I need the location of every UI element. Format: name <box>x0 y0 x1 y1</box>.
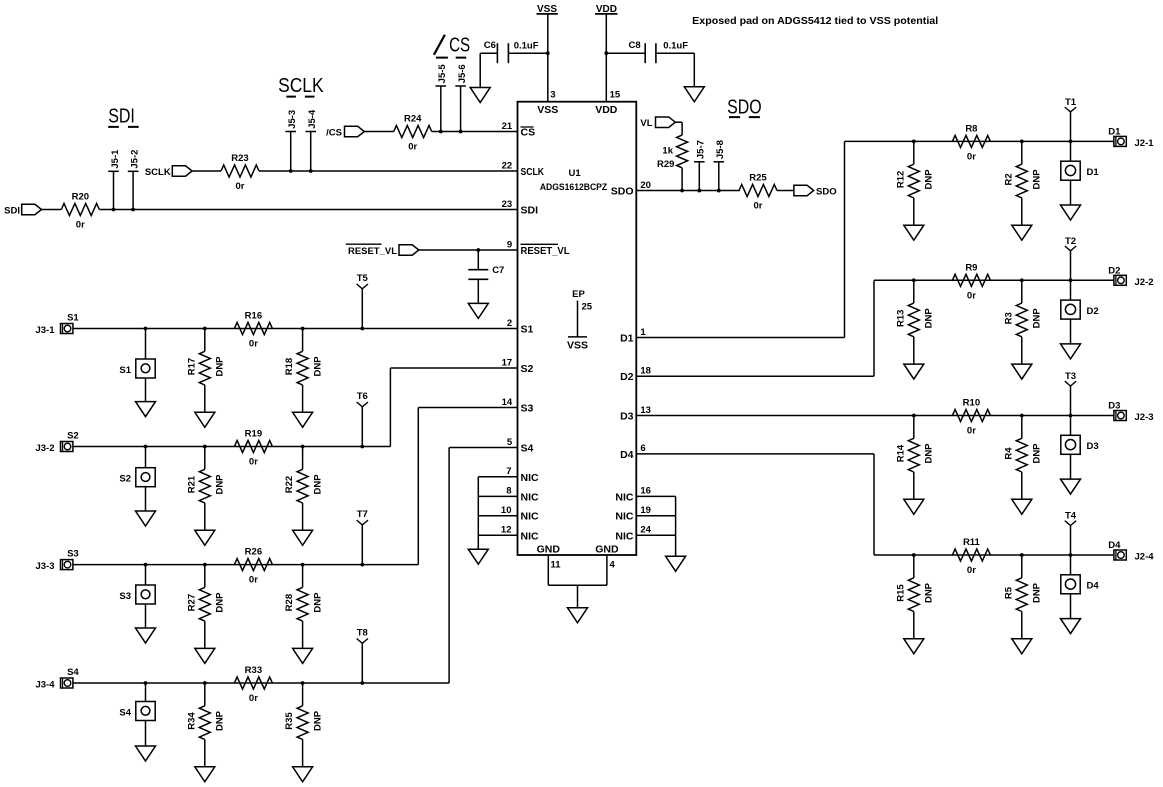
wire jack D4 to ground <box>1070 594 1072 619</box>
resistor R12 DNP <box>895 141 934 240</box>
svg-text:6: 6 <box>640 443 645 454</box>
resistor R15 DNP <box>895 555 934 654</box>
svg-text:1: 1 <box>640 327 646 338</box>
svg-text:SCLK: SCLK <box>145 167 171 178</box>
resistor R9 0r <box>952 262 990 301</box>
resistor R8 0r <box>952 123 990 162</box>
net label SDI (header) <box>108 106 139 128</box>
svg-text:DNP: DNP <box>1032 443 1043 464</box>
svg-text:NIC: NIC <box>615 511 634 523</box>
svg-text:VDD: VDD <box>595 104 618 116</box>
svg-text:0r: 0r <box>408 142 417 153</box>
resistor R34 DNP <box>186 683 225 782</box>
svg-text:S4: S4 <box>119 707 131 718</box>
svg-text:D4: D4 <box>1108 540 1121 551</box>
pin 1 (D1) of U1 <box>620 327 646 345</box>
svg-text:R19: R19 <box>245 429 262 440</box>
svg-text:D2: D2 <box>1087 306 1099 317</box>
pin 22 (SCLK) of U1 <box>502 160 545 178</box>
test point T1 <box>1065 97 1077 161</box>
test point T4 <box>1065 511 1077 575</box>
wire to jack S2 <box>145 447 147 468</box>
pin 23 (SDI) of U1 <box>502 199 538 217</box>
svg-text:D1: D1 <box>620 333 634 345</box>
svg-text:0r: 0r <box>967 565 976 576</box>
svg-text:J2-4: J2-4 <box>1135 552 1155 563</box>
svg-text:R34: R34 <box>186 712 197 730</box>
svg-text:9: 9 <box>507 239 512 250</box>
svg-text:R23: R23 <box>231 153 248 164</box>
svg-text:J3-2: J3-2 <box>35 443 54 454</box>
svg-text:J2-3: J2-3 <box>1135 412 1154 423</box>
svg-text:10: 10 <box>501 505 512 516</box>
svg-text:SDO: SDO <box>816 186 837 197</box>
resistor R35 DNP <box>284 683 323 782</box>
pin 14 (S3) of U1 <box>502 397 534 415</box>
svg-text:NIC: NIC <box>521 491 540 503</box>
wire R25 to SDO flag <box>777 190 794 192</box>
resistor R19 0r <box>234 429 272 468</box>
pin 15 (VDD) of U1 <box>595 90 621 116</box>
svg-text:SDI: SDI <box>108 106 135 128</box>
svg-text:12: 12 <box>501 525 512 536</box>
svg-text:0r: 0r <box>967 426 976 437</box>
pin 3 (VSS) of U1 <box>537 90 558 116</box>
svg-text:GND: GND <box>595 543 619 555</box>
svg-text:S4: S4 <box>67 667 79 678</box>
jumper J5-5 <box>436 64 449 134</box>
pin 18 (D2) of U1 <box>620 366 651 384</box>
ground below jack D1 <box>1061 205 1081 220</box>
svg-text:SDI: SDI <box>521 205 539 217</box>
svg-text:SCLK: SCLK <box>521 166 545 178</box>
svg-text:R17: R17 <box>186 358 197 375</box>
jack D1 <box>1061 161 1100 180</box>
svg-text:DNP: DNP <box>313 474 324 495</box>
svg-text:D3: D3 <box>1087 441 1099 452</box>
svg-text:R27: R27 <box>186 594 197 611</box>
resistor R27 DNP <box>186 565 225 664</box>
resistor R16 0r <box>234 311 272 350</box>
wire U1 pin to D4 riser <box>636 454 874 555</box>
svg-text:J5-7: J5-7 <box>696 140 707 159</box>
svg-text:SCLK: SCLK <box>278 75 324 97</box>
jack D2 <box>1061 300 1099 319</box>
svg-text:19: 19 <box>640 505 651 516</box>
jumper J5-8 <box>714 140 727 192</box>
svg-text:T7: T7 <box>357 509 368 520</box>
svg-text:R24: R24 <box>404 114 422 125</box>
svg-text:DNP: DNP <box>215 592 226 613</box>
svg-text:7: 7 <box>506 466 511 477</box>
wire U1 pin to D1 riser <box>636 141 844 337</box>
svg-text:DNP: DNP <box>215 356 226 377</box>
pin 12 (NIC) of U1 <box>501 525 539 543</box>
pin 5 (S4) of U1 <box>507 437 534 455</box>
ground below jack D2 <box>1061 344 1081 359</box>
svg-text:ADGS1612BCPZ: ADGS1612BCPZ <box>540 182 607 193</box>
svg-text:0r: 0r <box>249 575 258 586</box>
net label S1 <box>67 313 79 324</box>
wire net S4 <box>73 681 449 685</box>
wire jack D2 to ground <box>1070 319 1072 344</box>
svg-text:24: 24 <box>640 525 651 536</box>
svg-text:S2: S2 <box>119 474 131 485</box>
svg-text:S1: S1 <box>67 313 79 324</box>
net label /CS (header) <box>434 34 470 57</box>
connector J2-3 <box>1108 401 1153 424</box>
test point T6 <box>357 391 368 447</box>
wire GND pins 11 and 4 <box>548 555 607 608</box>
svg-text:R33: R33 <box>245 665 262 676</box>
svg-text:R21: R21 <box>186 475 197 493</box>
svg-text:SDO: SDO <box>727 97 762 119</box>
svg-text:R18: R18 <box>284 358 295 375</box>
pin 20 (SDO) of U1 <box>611 180 651 198</box>
resistor R11 0r <box>952 537 990 576</box>
svg-text:R10: R10 <box>963 398 980 409</box>
wire net D1 <box>845 140 1115 144</box>
capacitor C6 0.1uF <box>484 40 539 63</box>
jack S4 <box>119 702 155 721</box>
svg-text:R5: R5 <box>1003 586 1014 599</box>
wire C6 to ground <box>479 53 481 87</box>
net label S3 <box>67 549 79 560</box>
svg-text:J2-1: J2-1 <box>1135 138 1155 149</box>
svg-text:R2: R2 <box>1003 173 1014 185</box>
pin 4 (GND) of U1 <box>595 543 619 570</box>
svg-text:CS: CS <box>449 34 470 56</box>
note text <box>692 15 938 27</box>
jumper J5-2 <box>128 150 141 212</box>
svg-text:0r: 0r <box>76 220 85 231</box>
svg-text:/CS: /CS <box>326 127 342 138</box>
resistor R22 DNP <box>284 447 323 546</box>
resistor R13 DNP <box>895 280 934 379</box>
svg-text:DNP: DNP <box>313 356 324 377</box>
port flag SDO <box>794 185 837 197</box>
svg-text:EP: EP <box>572 289 585 300</box>
wire S3 riser to U1 <box>418 408 517 565</box>
jack S3 <box>119 585 155 604</box>
svg-text:T4: T4 <box>1065 511 1077 522</box>
jumper J5-6 <box>455 64 468 133</box>
svg-text:J5-5: J5-5 <box>437 64 448 84</box>
svg-text:R14: R14 <box>895 444 906 462</box>
svg-text:23: 23 <box>502 199 513 210</box>
resistor R28 DNP <box>284 565 323 664</box>
svg-text:NIC: NIC <box>521 530 540 542</box>
ground below jack S4 <box>136 746 156 761</box>
svg-text:D2: D2 <box>1108 265 1120 276</box>
svg-text:20: 20 <box>640 180 651 191</box>
jack S1 <box>119 359 155 378</box>
svg-text:R15: R15 <box>895 584 906 602</box>
svg-text:NIC: NIC <box>615 491 634 503</box>
svg-text:DNP: DNP <box>1032 169 1043 190</box>
resistor R20 0r <box>61 192 99 231</box>
svg-text:D1: D1 <box>1087 167 1100 178</box>
port flag SDI <box>4 204 41 216</box>
svg-text:5: 5 <box>507 437 513 448</box>
svg-text:11: 11 <box>551 560 562 571</box>
svg-text:8: 8 <box>506 486 511 497</box>
svg-text:R20: R20 <box>72 192 89 203</box>
svg-text:0r: 0r <box>249 693 258 704</box>
svg-text:T6: T6 <box>357 391 368 402</box>
svg-text:DNP: DNP <box>924 443 935 464</box>
wire net D4 <box>874 553 1114 557</box>
wire C6 to VSS rail <box>480 51 549 55</box>
pin 2 (S1) of U1 <box>507 318 534 336</box>
pin 7 (NIC) of U1 <box>506 466 539 484</box>
svg-text:0r: 0r <box>249 339 258 350</box>
resistor R17 DNP <box>186 329 225 428</box>
pin 16 (NIC) of U1 <box>615 486 651 504</box>
svg-text:J5-3: J5-3 <box>287 110 298 129</box>
connector J3-1 <box>35 324 72 337</box>
jack D3 <box>1061 435 1099 454</box>
svg-text:0r: 0r <box>967 290 976 301</box>
svg-text:4: 4 <box>610 560 616 571</box>
ground below jack S2 <box>136 511 156 526</box>
wire /CS flag to R24 <box>364 131 393 133</box>
pin 17 (S2) of U1 <box>502 357 534 375</box>
resistor R24 0r <box>394 114 432 153</box>
svg-text:C7: C7 <box>492 265 504 276</box>
svg-text:0r: 0r <box>249 457 258 468</box>
svg-text:S3: S3 <box>521 403 534 415</box>
svg-text:16: 16 <box>640 486 651 497</box>
pin 8 (NIC) of U1 <box>506 486 539 504</box>
svg-text:NIC: NIC <box>521 511 540 523</box>
svg-text:25: 25 <box>582 302 593 313</box>
svg-text:C6: C6 <box>484 40 496 51</box>
resistor R29 1k <box>657 135 688 190</box>
ground below C6 <box>470 88 490 103</box>
power flag VSS <box>537 4 558 15</box>
net label S4 <box>67 667 79 678</box>
port flag /CS <box>326 126 364 138</box>
svg-text:3: 3 <box>550 90 555 101</box>
svg-text:DNP: DNP <box>215 474 226 495</box>
svg-text:T3: T3 <box>1065 371 1076 382</box>
svg-text:J5-4: J5-4 <box>307 109 318 129</box>
wire jack D3 to ground <box>1070 454 1072 479</box>
test point T5 <box>357 273 369 329</box>
port flag SCLK <box>145 166 192 178</box>
resistor R33 0r <box>234 665 272 704</box>
wire to jack S3 <box>145 565 147 585</box>
wire net S2 <box>73 445 390 449</box>
svg-text:DNP: DNP <box>215 710 226 731</box>
svg-text:R4: R4 <box>1003 447 1014 460</box>
svg-text:17: 17 <box>502 357 513 368</box>
pin 19 (NIC) of U1 <box>615 505 651 523</box>
svg-text:R3: R3 <box>1003 312 1014 324</box>
svg-text:T5: T5 <box>357 273 369 284</box>
svg-text:0r: 0r <box>754 201 763 212</box>
jack S2 <box>119 468 155 487</box>
ground below jack D3 <box>1061 479 1081 494</box>
wire jack S4 to ground <box>145 721 147 747</box>
svg-text:J5-2: J5-2 <box>130 150 141 169</box>
capacitor C7 <box>468 265 504 279</box>
svg-text:R12: R12 <box>895 171 906 188</box>
net label SDO (header) <box>727 97 762 119</box>
pin 25 (EP) of U1 <box>567 289 593 352</box>
svg-text:GND: GND <box>537 543 561 555</box>
wire SDI flag to R20 <box>42 209 62 211</box>
resistor R3 DNP <box>1003 280 1042 379</box>
wire jack S2 to ground <box>145 487 147 511</box>
svg-text:14: 14 <box>502 397 513 408</box>
svg-text:0.1uF: 0.1uF <box>663 40 688 51</box>
svg-text:1k: 1k <box>662 146 673 157</box>
ground below jack D4 <box>1061 619 1081 634</box>
IC U1 ADGS1612BCPZ body <box>518 102 637 555</box>
svg-text:DNP: DNP <box>924 308 935 329</box>
connector J3-2 <box>35 442 72 455</box>
wire VDD rail to pin 15 <box>605 14 607 102</box>
ground below C7 <box>468 303 488 318</box>
wire jack S3 to ground <box>145 604 147 628</box>
svg-text:S3: S3 <box>67 549 79 560</box>
svg-text:VSS: VSS <box>567 340 588 352</box>
svg-text:D4: D4 <box>620 449 634 461</box>
jumper J5-7 <box>694 140 707 192</box>
test point T2 <box>1065 236 1076 300</box>
svg-text:RESET_VL: RESET_VL <box>348 246 397 257</box>
svg-text:S1: S1 <box>521 324 534 336</box>
svg-text:J5-6: J5-6 <box>457 64 468 83</box>
ground NIC right <box>666 556 686 571</box>
svg-text:21: 21 <box>502 121 513 132</box>
wire NIC pins left <box>478 477 517 549</box>
wire net S1 <box>73 327 518 331</box>
resistor R25 0r <box>739 173 777 212</box>
wire jack S1 to ground <box>145 378 147 402</box>
test point T3 <box>1065 371 1076 435</box>
pin 21 (CS) of U1 <box>502 121 535 139</box>
wire VSS rail to pin 3 <box>547 14 549 102</box>
wire jack D1 to ground <box>1070 180 1072 205</box>
wire SDI net to pin 23 <box>99 209 517 211</box>
svg-text:13: 13 <box>640 405 651 416</box>
pin 24 (NIC) of U1 <box>615 525 651 543</box>
svg-text:D4: D4 <box>1087 581 1100 592</box>
svg-text:0r: 0r <box>236 181 245 192</box>
ground below jack S3 <box>136 628 156 643</box>
ground below U1 <box>568 608 588 623</box>
resistor R4 DNP <box>1003 416 1042 515</box>
pin 13 (D3) of U1 <box>620 405 651 423</box>
net label S2 <box>67 431 79 442</box>
svg-text:T2: T2 <box>1065 236 1076 247</box>
resistor R2 DNP <box>1003 141 1042 240</box>
jumper J5-4 <box>305 109 318 173</box>
wire U1 pin to D2 riser <box>636 280 874 376</box>
svg-text:D3: D3 <box>1108 401 1120 412</box>
resistor R14 DNP <box>895 416 934 515</box>
wire S4 riser to U1 <box>449 448 517 684</box>
svg-text:RESET_VL: RESET_VL <box>521 245 571 257</box>
wire S2 riser to U1 <box>390 368 517 447</box>
wire pin 20 SDO net <box>636 189 739 193</box>
svg-text:SDI: SDI <box>4 205 20 216</box>
test point T7 <box>357 509 368 565</box>
svg-text:DNP: DNP <box>924 582 935 603</box>
wire net S3 <box>73 563 418 567</box>
svg-text:J2-2: J2-2 <box>1135 277 1154 288</box>
svg-text:0r: 0r <box>967 151 976 162</box>
resistor R26 0r <box>234 547 272 586</box>
wire SCLK flag to R23 <box>192 170 221 172</box>
svg-text:R11: R11 <box>963 537 981 548</box>
resistor R5 DNP <box>1003 555 1042 654</box>
resistor R10 0r <box>952 398 990 437</box>
svg-text:S4: S4 <box>521 443 534 455</box>
jumper J5-3 <box>285 110 298 173</box>
svg-text:NIC: NIC <box>615 530 634 542</box>
svg-text:R9: R9 <box>965 262 977 273</box>
wire NIC pins right <box>636 496 675 556</box>
resistor R23 0r <box>221 153 259 192</box>
connector J2-2 <box>1108 265 1153 288</box>
svg-text:D3: D3 <box>620 411 634 423</box>
wire RESET_VL to C7 <box>477 250 479 270</box>
resistor R18 DNP <box>284 329 323 428</box>
connector J3-4 <box>35 678 72 691</box>
svg-text:VSS: VSS <box>537 104 558 116</box>
wire SCLK net to pin 22 <box>259 170 518 172</box>
svg-text:15: 15 <box>610 90 621 101</box>
wire to jack S1 <box>145 329 147 360</box>
svg-text:R8: R8 <box>965 123 977 134</box>
svg-text:J5-8: J5-8 <box>715 140 726 159</box>
ground below jack S1 <box>136 402 156 417</box>
resistor R21 DNP <box>186 447 225 546</box>
ground NIC left <box>468 549 488 564</box>
port flag VL <box>640 117 675 129</box>
svg-text:R16: R16 <box>245 311 262 322</box>
net label SCLK (header) <box>278 75 324 97</box>
svg-text:2: 2 <box>507 318 512 329</box>
svg-text:S2: S2 <box>67 431 79 442</box>
svg-text:R29: R29 <box>657 159 674 170</box>
pin 6 (D4) of U1 <box>620 443 646 461</box>
svg-text:SDO: SDO <box>611 186 634 198</box>
svg-text:VL: VL <box>640 118 652 129</box>
capacitor C8 0.1uF <box>629 40 689 63</box>
svg-text:DNP: DNP <box>1032 582 1043 603</box>
svg-text:DNP: DNP <box>313 592 324 613</box>
pin 9 (RESET_VL) of U1 <box>507 239 570 257</box>
svg-text:CS: CS <box>521 127 536 139</box>
svg-text:R35: R35 <box>284 712 295 730</box>
power flag VDD <box>595 4 618 15</box>
svg-text:22: 22 <box>502 160 513 171</box>
svg-text:NIC: NIC <box>521 472 540 484</box>
svg-text:D1: D1 <box>1108 126 1121 137</box>
svg-text:U1: U1 <box>569 168 582 179</box>
svg-text:D2: D2 <box>620 371 634 383</box>
port flag RESET_VL <box>346 244 419 257</box>
svg-text:S1: S1 <box>119 365 131 376</box>
svg-text:R13: R13 <box>895 310 906 327</box>
svg-text:T8: T8 <box>357 628 368 639</box>
svg-text:S2: S2 <box>521 363 534 375</box>
